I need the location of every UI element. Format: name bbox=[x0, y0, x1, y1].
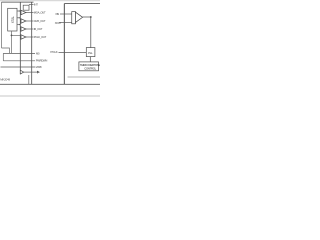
wire 2X08 row bbox=[1, 66, 36, 68]
buffer B5 bbox=[20, 70, 23, 74]
wire stub bottom bbox=[28, 75, 30, 84]
wire M0-PWRDN link bbox=[2, 53, 4, 60]
junction node amp bbox=[90, 16, 92, 18]
wire XTCLK to PLL bbox=[59, 51, 87, 53]
arrow out bbox=[37, 71, 39, 73]
svg-text:XTAL: XTAL bbox=[11, 16, 15, 23]
svg-text:CMX_OUT: CMX_OUT bbox=[34, 19, 46, 23]
wire top rail left diagram bbox=[2, 1, 34, 3]
svg-text:XOUT: XOUT bbox=[55, 21, 62, 25]
wire down to PLL bbox=[90, 17, 92, 48]
svg-text:XTCLK: XTCLK bbox=[50, 50, 58, 54]
wire node to IC bbox=[12, 34, 21, 36]
wire PWRDWN row bbox=[3, 60, 35, 62]
svg-text:IR_OUT: IR_OUT bbox=[34, 27, 43, 31]
wire B5 out bbox=[24, 71, 38, 73]
third overtone control block bbox=[79, 62, 99, 71]
wire PLL to control bbox=[89, 57, 91, 62]
wire M0 row bbox=[3, 52, 35, 54]
wire XOUT bbox=[59, 22, 72, 24]
wire osc bottom down bbox=[11, 31, 13, 53]
PLL block bbox=[86, 48, 95, 57]
wire MGA_OUT bbox=[26, 12, 34, 14]
wire amp out bbox=[83, 16, 91, 18]
buffer B1 bbox=[21, 10, 26, 14]
svg-text:PLL: PLL bbox=[88, 51, 93, 55]
svg-text:MK2049: MK2049 bbox=[0, 78, 10, 82]
IC U1 right edge bbox=[31, 2, 33, 84]
figure bottom rule bbox=[0, 83, 100, 85]
wire osc to IC pin 2 bbox=[17, 17, 20, 19]
wire left vertical bbox=[1, 2, 3, 48]
footer rule bbox=[0, 95, 100, 97]
svg-text:INT: INT bbox=[34, 2, 38, 6]
IC U2 top edge bbox=[64, 3, 100, 5]
wire osc to IC pin 3 bbox=[17, 24, 20, 26]
svg-text:PWRDWN: PWRDWN bbox=[36, 59, 48, 63]
wire jog bbox=[2, 48, 10, 53]
IC U2 left edge bbox=[63, 4, 65, 85]
buffer B3 bbox=[21, 27, 26, 31]
wire osc to IC pin 1 bbox=[17, 10, 20, 12]
wire PCLK_OUT bbox=[26, 36, 34, 38]
osc amp A1 bbox=[76, 12, 83, 22]
buffer B4 bbox=[21, 35, 26, 39]
junction node bbox=[11, 35, 13, 37]
crystal X2 bbox=[72, 12, 76, 24]
wire XIN bbox=[60, 13, 72, 15]
svg-text:2X08: 2X08 bbox=[36, 65, 42, 69]
top faint page border bbox=[0, 0, 100, 2]
buffer B2 bbox=[21, 19, 26, 23]
IC U1 left edge bbox=[19, 2, 21, 74]
oscillator block X1 bbox=[8, 8, 17, 31]
wire CMX_OUT bbox=[26, 20, 34, 22]
svg-text:XIN: XIN bbox=[55, 12, 59, 16]
svg-text:PCLK_OUT: PCLK_OUT bbox=[34, 35, 47, 39]
wire gray bottom right bbox=[68, 76, 101, 78]
wire IR_OUT bbox=[26, 28, 34, 30]
wire INT out bbox=[29, 3, 34, 5]
svg-text:MGA_OUT: MGA_OUT bbox=[34, 10, 46, 14]
svg-text:CONTROL: CONTROL bbox=[84, 66, 96, 70]
divider block U1a bbox=[23, 5, 29, 10]
